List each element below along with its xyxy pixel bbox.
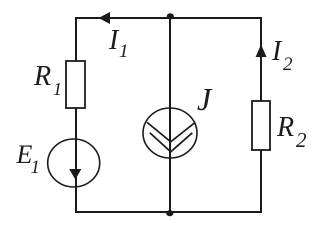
wire right upper xyxy=(260,17,262,102)
label R2 xyxy=(276,112,307,152)
svg-text:1: 1 xyxy=(31,157,41,178)
resistor R2 xyxy=(252,101,270,150)
wire left middle xyxy=(75,108,77,140)
current arrow I1 xyxy=(99,12,111,24)
wire right lower xyxy=(260,150,262,213)
svg-text:I: I xyxy=(271,36,283,67)
svg-text:J: J xyxy=(197,81,213,117)
wire left upper xyxy=(75,17,77,62)
svg-text:2: 2 xyxy=(296,128,307,152)
current arrow I2 xyxy=(256,45,267,58)
label I2 xyxy=(271,36,293,75)
wire top xyxy=(75,17,261,19)
node top junction xyxy=(167,13,174,19)
node bottom junction xyxy=(166,210,173,216)
svg-text:1: 1 xyxy=(119,41,129,62)
current source J xyxy=(143,108,197,158)
svg-text:R: R xyxy=(276,112,294,143)
label I1 xyxy=(108,25,129,62)
resistor R1 xyxy=(66,61,85,108)
source E1 xyxy=(48,139,100,187)
svg-text:2: 2 xyxy=(283,54,293,75)
wire middle xyxy=(169,18,171,212)
svg-text:R: R xyxy=(33,61,51,92)
svg-text:1: 1 xyxy=(53,79,62,99)
wire bottom xyxy=(75,211,262,213)
label E1 xyxy=(16,140,41,178)
wire left lower xyxy=(75,186,77,213)
label R1 xyxy=(33,61,62,99)
